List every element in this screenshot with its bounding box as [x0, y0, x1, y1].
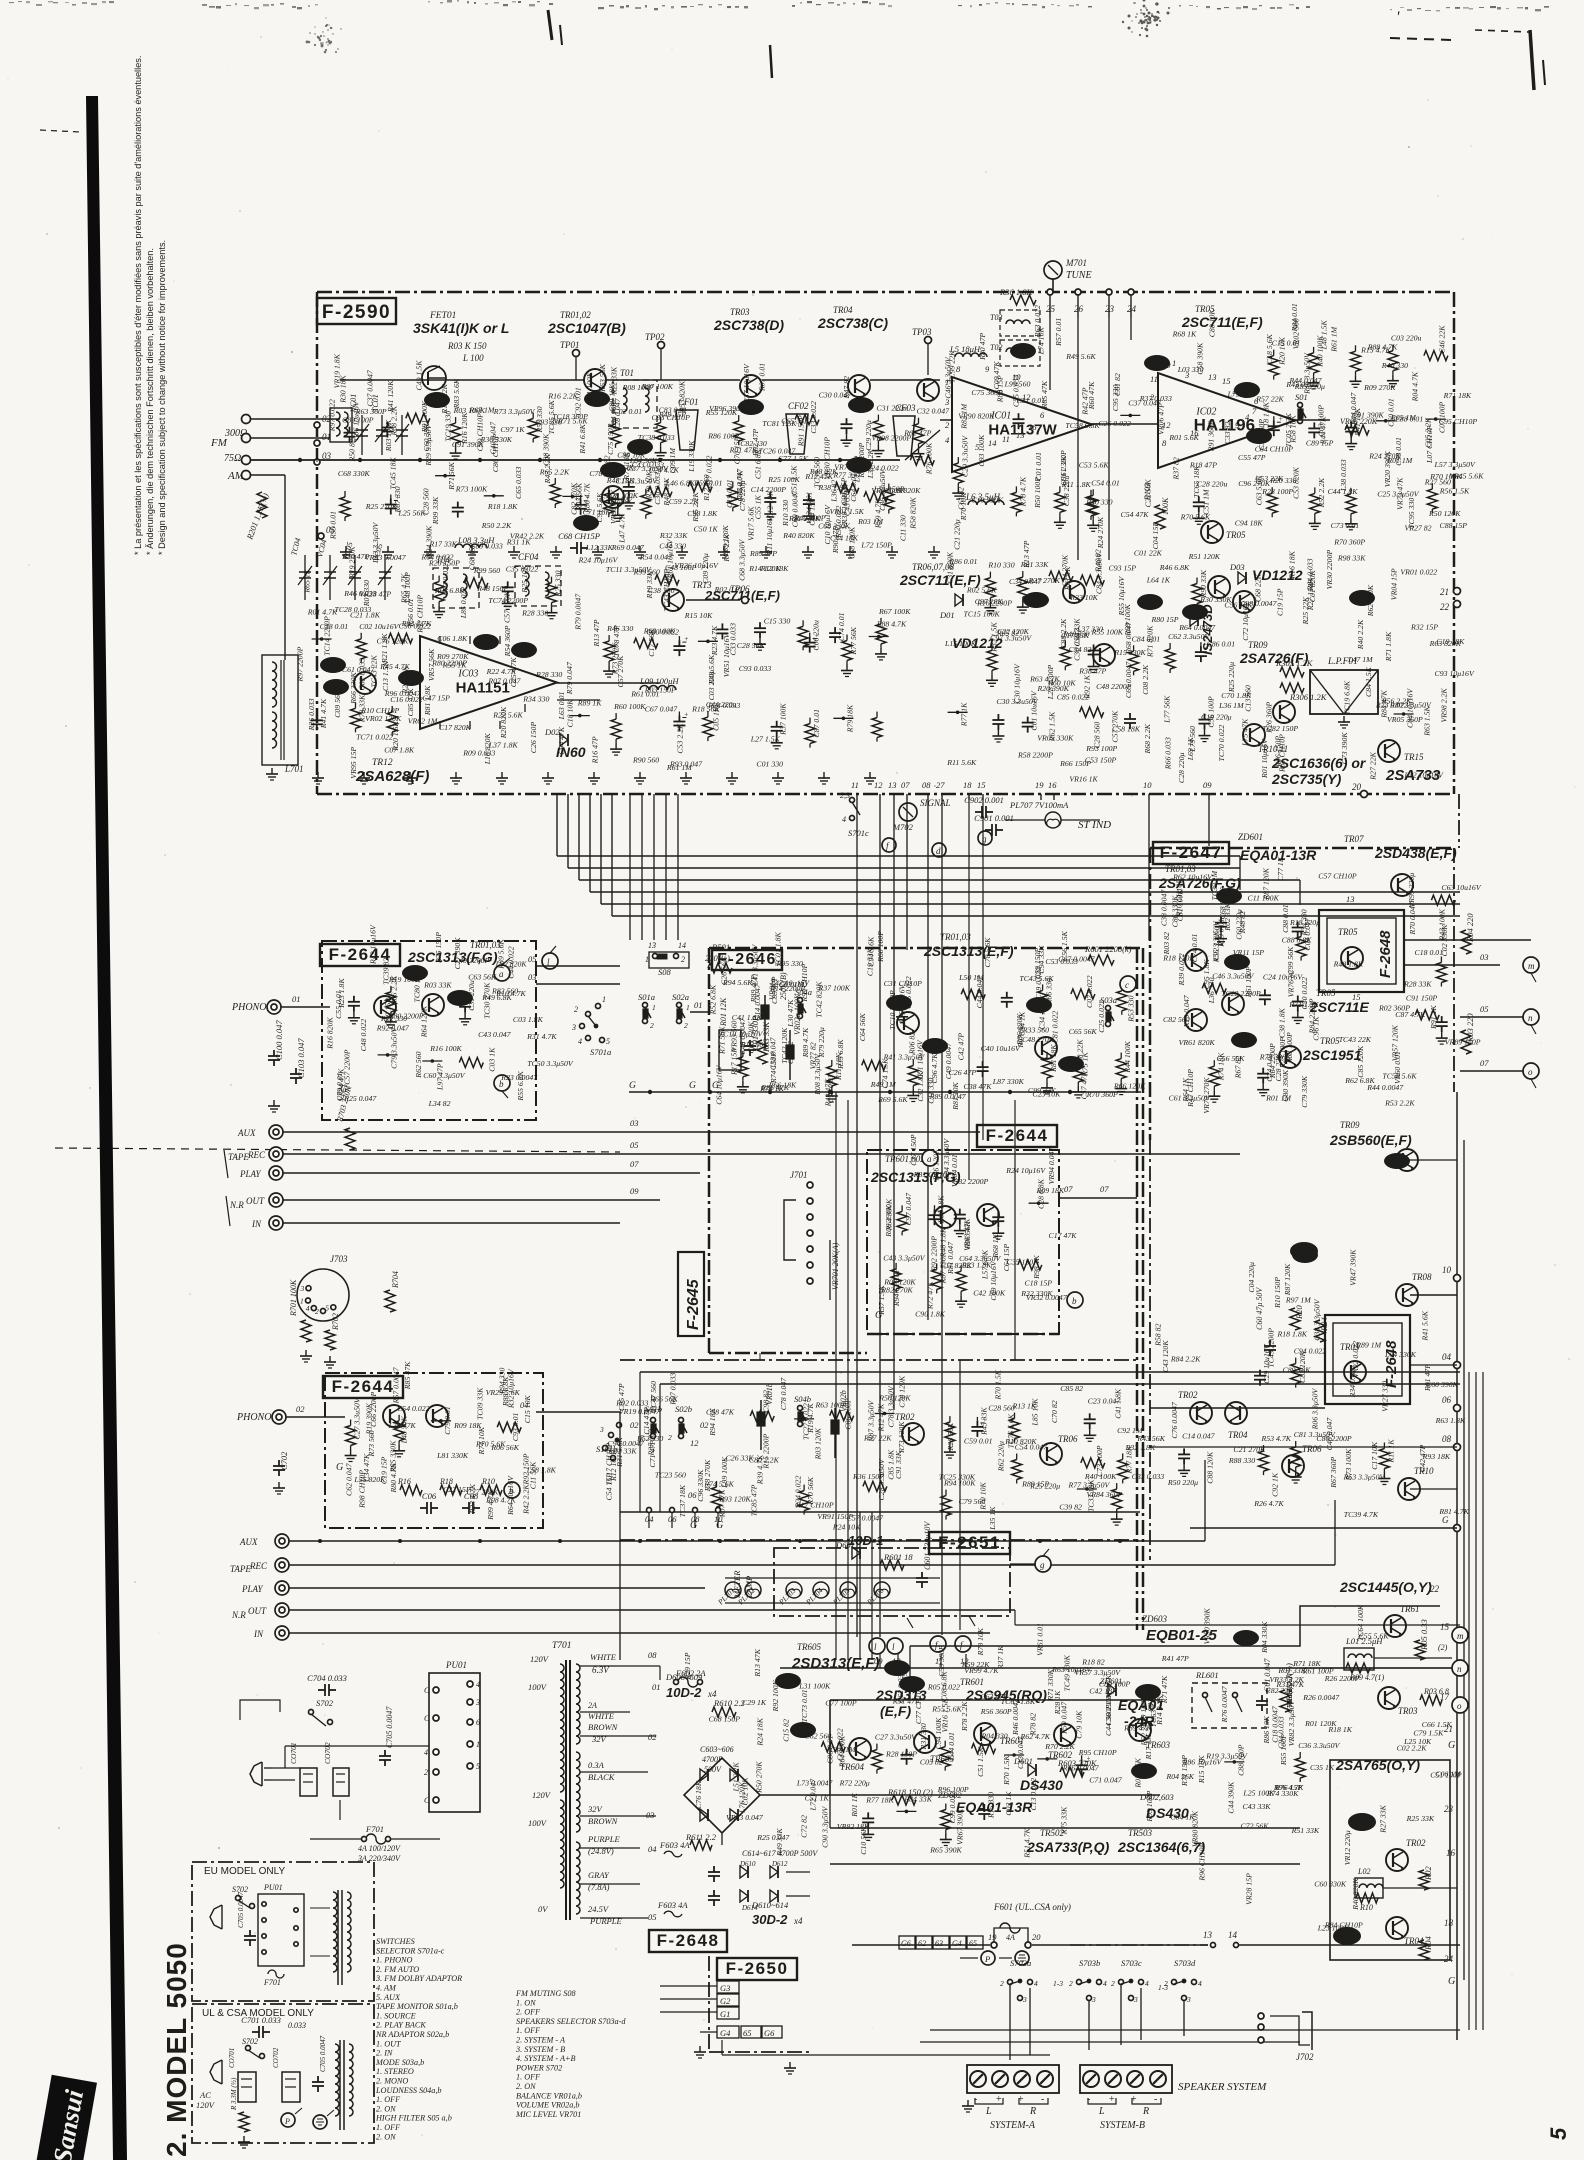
- svg-text:TC23 560: TC23 560: [655, 1471, 686, 1480]
- svg-text:R16: R16: [397, 1477, 411, 1486]
- svg-text:C22 56K: C22 56K: [1144, 479, 1153, 508]
- svg-text:C53 360P: C53 360P: [937, 1645, 946, 1677]
- main supply rails from bridge: [760, 1794, 830, 1796]
- svg-text:C79 3.3u50V: C79 3.3u50V: [390, 1027, 399, 1069]
- svg-text:R26 2200P: R26 2200P: [1324, 1674, 1360, 1683]
- coil L08 3.3uH: [455, 544, 487, 548]
- svg-text:C46 3.3μ50V: C46 3.3μ50V: [944, 356, 953, 398]
- svg-text:R20 150P: R20 150P: [428, 558, 460, 567]
- svg-text:C98 82: C98 82: [761, 1390, 770, 1413]
- R03 33K: [757, 1040, 767, 1064]
- svg-text:R15 10K: R15 10K: [684, 611, 713, 620]
- svg-text:SIGNAL: SIGNAL: [920, 798, 951, 808]
- svg-text:16: 16: [1048, 780, 1057, 790]
- transistor TR13 2SC711 mid: [662, 589, 684, 611]
- svg-text:06: 06: [1442, 1395, 1452, 1405]
- svg-text:TC27 0.022: TC27 0.022: [801, 1403, 810, 1440]
- svg-text:13: 13: [888, 780, 897, 790]
- svg-text:C91 150P: C91 150P: [1406, 993, 1438, 1002]
- svg-text:C49 1.5K: C49 1.5K: [414, 360, 423, 391]
- svg-text:C63 10u16V: C63 10u16V: [1441, 883, 1481, 892]
- svg-text:C27 3.3u50V: C27 3.3u50V: [875, 1733, 917, 1742]
- tuner row1 component cluster: [349, 427, 351, 433]
- svg-text:R60 100K: R60 100K: [613, 702, 646, 711]
- svg-text:TP03: TP03: [912, 327, 932, 337]
- svg-text:C44 1.8K: C44 1.8K: [1328, 487, 1359, 496]
- G bus under switches: [629, 1091, 1141, 1093]
- svg-text:R12 18K: R12 18K: [760, 564, 789, 573]
- svg-text:R59 0.047: R59 0.047: [1059, 1701, 1068, 1735]
- tuner box pins 25 26 23 24: [1047, 289, 1053, 295]
- svg-text:30D-2: 30D-2: [752, 1912, 788, 1927]
- VR02a 100K: [789, 1030, 791, 1080]
- svg-text:C29 3.3u50V: C29 3.3u50V: [960, 435, 969, 477]
- svg-text:R64 120K: R64 120K: [420, 1005, 429, 1038]
- svg-text:C92 1M: C92 1M: [1117, 1426, 1143, 1435]
- svg-text:TR09: TR09: [1340, 1120, 1360, 1130]
- svg-text:C13 560: C13 560: [1244, 685, 1253, 712]
- R601 18: [880, 1560, 904, 1570]
- svg-text:R85 47K: R85 47K: [403, 1361, 412, 1390]
- svg-text:4: 4: [306, 1304, 310, 1313]
- svg-text:R90 0.022: R90 0.022: [834, 506, 843, 539]
- svg-text:TAPE: TAPE: [228, 1152, 249, 1162]
- svg-text:+: +: [1109, 2094, 1115, 2105]
- svg-text:C28 56K: C28 56K: [737, 641, 766, 650]
- svg-text:R77 18K: R77 18K: [865, 1795, 894, 1804]
- ceramic filter CF02: [786, 414, 808, 454]
- svg-text:R28 330: R28 330: [521, 609, 548, 618]
- svg-text:TC95 330: TC95 330: [1407, 498, 1416, 529]
- svg-text:R20 10K: R20 10K: [1278, 336, 1287, 365]
- transistor TR11: [1273, 701, 1295, 723]
- svg-text:C97 1K: C97 1K: [500, 425, 525, 434]
- svg-text:VR12 220μ: VR12 220μ: [1343, 1830, 1352, 1865]
- svg-text:VR67 390K: VR67 390K: [955, 1808, 964, 1845]
- svg-text:3A 220/340V: 3A 220/340V: [357, 1854, 401, 1863]
- svg-text:R74 1K: R74 1K: [759, 1084, 784, 1093]
- svg-text:R90 560: R90 560: [632, 756, 659, 765]
- svg-text:R19 3.3μ50V: R19 3.3μ50V: [1205, 1752, 1248, 1761]
- svg-text:R78 4.7K: R78 4.7K: [1018, 476, 1027, 507]
- svg-text:M701: M701: [1065, 258, 1087, 268]
- svg-text:C94 47K: C94 47K: [557, 726, 566, 755]
- EU C705: [249, 1930, 251, 1936]
- svg-text:R26 360P: R26 360P: [1265, 701, 1274, 733]
- svg-text:C57 CH10P: C57 CH10P: [1318, 871, 1357, 880]
- Sansui logo block bottom left: [35, 2075, 97, 2160]
- svg-text:15: 15: [1222, 376, 1231, 386]
- svg-text:1: 1: [1172, 358, 1176, 368]
- svg-text:C01 22K: C01 22K: [1134, 549, 1163, 558]
- R603 220K: [1060, 1767, 1084, 1777]
- svg-text:C68 820K: C68 820K: [1218, 887, 1227, 920]
- fuse F602 2A: [678, 1677, 698, 1687]
- svg-text:L27 1.5K: L27 1.5K: [750, 735, 781, 744]
- svg-text:R73 120K: R73 120K: [897, 1421, 906, 1454]
- svg-text:R24 18K: R24 18K: [755, 1717, 764, 1746]
- svg-text:2SC1047(B): 2SC1047(B): [547, 320, 626, 336]
- svg-text:TAPE MONITOR S01a,b: TAPE MONITOR S01a,b: [376, 2002, 458, 2011]
- svg-text:R70 2.2K: R70 2.2K: [1044, 1742, 1075, 1751]
- svg-text:C17 33K: C17 33K: [1061, 631, 1090, 640]
- svg-text:R80 47P: R80 47P: [978, 333, 987, 361]
- svg-text:08: 08: [691, 1514, 700, 1524]
- svg-text:L50 1M: L50 1M: [958, 973, 984, 982]
- wires from F-2650 left: [660, 1985, 717, 1987]
- svg-text:R01 47P: R01 47P: [1423, 1364, 1432, 1392]
- svg-text:R92 2200P: R92 2200P: [929, 1236, 938, 1272]
- svg-text:VR63 0.0047: VR63 0.0047: [365, 553, 407, 562]
- output terminals right channel: [1454, 1275, 1461, 1282]
- svg-text:TC81 1.5K: TC81 1.5K: [762, 419, 797, 428]
- svg-text:C08 2.2K: C08 2.2K: [1141, 664, 1150, 695]
- svg-text:R86 0.01: R86 0.01: [948, 557, 977, 566]
- svg-text:R92 150P: R92 150P: [522, 1453, 531, 1485]
- svg-text:C44 0.01: C44 0.01: [947, 1732, 956, 1761]
- svg-text:L: L: [1098, 2106, 1105, 2117]
- svg-text:2,3: 2,3: [840, 791, 850, 800]
- svg-text:2SD438(E,F): 2SD438(E,F): [1374, 845, 1457, 861]
- svg-text:M702: M702: [892, 822, 914, 832]
- svg-text:TR06: TR06: [1302, 1444, 1322, 1454]
- svg-text:R56 360P: R56 360P: [980, 1707, 1012, 1716]
- svg-text:L12 18K: L12 18K: [766, 490, 775, 519]
- svg-text:R59 0.01: R59 0.01: [693, 478, 722, 487]
- svg-text:C79 0.01: C79 0.01: [443, 1406, 452, 1435]
- svg-text:TC65 18K: TC65 18K: [1192, 465, 1201, 498]
- ZD601 zener: [1108, 1684, 1116, 1696]
- G4 65 G6 boxes: [717, 2026, 739, 2038]
- svg-text:TC30 270K: TC30 270K: [483, 982, 492, 1019]
- svg-text:R70 5.6K: R70 5.6K: [1180, 513, 1211, 522]
- svg-text:14: 14: [988, 438, 997, 448]
- svg-text:R05 0.33: R05 0.33: [1419, 1619, 1429, 1651]
- svg-text:': ': [1396, 9, 1400, 26]
- svg-text:R26 4.7K: R26 4.7K: [1253, 1499, 1284, 1508]
- L09 100uH coil: [640, 686, 676, 691]
- svg-text:CO702: CO702: [272, 2047, 280, 2068]
- svg-text:VR61 820K: VR61 820K: [1179, 1038, 1216, 1047]
- R703 270K rotated: [345, 1128, 355, 1150]
- volume VR01a 250K: [764, 995, 766, 1050]
- svg-text:R95 0.01: R95 0.01: [328, 511, 337, 540]
- svg-text:S701a: S701a: [590, 1047, 611, 1057]
- blob mid right: [1292, 1247, 1318, 1263]
- svg-text:1: 1: [686, 1003, 690, 1012]
- svg-text:C701 0.033: C701 0.033: [241, 2015, 281, 2025]
- tuner row1 grounds: [345, 546, 347, 552]
- svg-text:TP01: TP01: [560, 340, 580, 350]
- svg-text:R63 56K: R63 56K: [598, 363, 607, 392]
- transistor TR08: [1208, 576, 1230, 598]
- svg-text:C09 1M: C09 1M: [668, 448, 677, 474]
- svg-text:3: 3: [1133, 1995, 1138, 2004]
- svg-text:R99 4.7K: R99 4.7K: [486, 1490, 495, 1521]
- cluster right power amp: [1183, 1448, 1185, 1454]
- svg-text:C705 0.0047: C705 0.0047: [385, 1706, 394, 1748]
- svg-text:C39 82: C39 82: [1059, 1502, 1082, 1511]
- black ink blobs tuner row1: [584, 391, 610, 407]
- svg-text:2: 2: [668, 1433, 672, 1442]
- svg-text:C89 18K: C89 18K: [1283, 1366, 1312, 1375]
- svg-text:C21 270K: C21 270K: [1233, 1445, 1266, 1454]
- svg-text:R12 47K: R12 47K: [876, 1403, 885, 1432]
- svg-text:L51 2.2K: L51 2.2K: [731, 1762, 740, 1793]
- svg-text:R91 360P: R91 360P: [1207, 420, 1216, 452]
- svg-text:L46 6.8K: L46 6.8K: [665, 479, 696, 488]
- wire 01 to F-2646: [690, 1011, 709, 1013]
- svg-text:C100 0.047: C100 0.047: [274, 1020, 284, 1060]
- svg-text:C68 100K: C68 100K: [847, 526, 856, 559]
- svg-text:R66 0.033: R66 0.033: [1163, 737, 1172, 770]
- svg-text:C79 560: C79 560: [959, 1497, 986, 1506]
- transistor TR05 below HA1196: [1201, 521, 1223, 543]
- svg-text:F-2644: F-2644: [332, 1377, 395, 1396]
- svg-text:R28 150P: R28 150P: [885, 1750, 917, 1759]
- svg-text:R306 1.2K: R306 1.2K: [1289, 692, 1328, 702]
- svg-text:R98 22K: R98 22K: [1076, 1039, 1085, 1068]
- small caps diodes D610-614 row: [713, 1866, 715, 1872]
- P earth terminals bottom: [981, 1951, 995, 1965]
- outputs to terminals m n o: [1404, 939, 1531, 941]
- rotated resistor R201 1.2K: [257, 492, 267, 518]
- svg-text:R05 4.7K: R05 4.7K: [736, 470, 745, 501]
- svg-text:R28 330: R28 330: [535, 670, 562, 679]
- R16 R18 R10 feedback resistors: [400, 1485, 422, 1495]
- svg-text:TC85 47P: TC85 47P: [750, 1484, 759, 1516]
- svg-text:L09 100μH: L09 100μH: [639, 676, 679, 686]
- svg-text:R25 33K: R25 33K: [1406, 1814, 1435, 1823]
- svg-text:R15 2200P: R15 2200P: [761, 1433, 770, 1469]
- cap C68 CH15P: [570, 547, 577, 549]
- svg-text:-: -: [1041, 2094, 1044, 2105]
- selector switch S701a: [586, 1012, 591, 1017]
- speaker relay RL601 dashed: [1192, 1683, 1267, 1728]
- svg-text:2SC738(C): 2SC738(C): [817, 315, 888, 331]
- svg-text:R97 0.033: R97 0.033: [669, 1373, 678, 1406]
- svg-text:PHONO: PHONO: [231, 1002, 266, 1013]
- svg-text:VR28 15P: VR28 15P: [1245, 1873, 1254, 1905]
- svg-text:F701: F701: [263, 1978, 281, 1987]
- svg-text:R07 0.01: R07 0.01: [758, 363, 767, 392]
- svg-text:19: 19: [988, 1932, 997, 1942]
- svg-text:C67 0.047: C67 0.047: [645, 705, 679, 714]
- svg-text:L36 330: L36 330: [1207, 977, 1216, 1004]
- svg-text:R41 6.8K: R41 6.8K: [578, 423, 587, 454]
- mic amp transistors: [934, 1206, 956, 1228]
- cluster F-2644 no1: [353, 996, 355, 1002]
- board edge pins 02 01 03 05: [314, 422, 320, 428]
- svg-text:R18 1K: R18 1K: [1327, 1725, 1352, 1734]
- svg-text:4: 4: [578, 1037, 582, 1046]
- svg-text:VR16 1.5K: VR16 1.5K: [941, 1697, 950, 1732]
- svg-text:07: 07: [630, 1159, 639, 1169]
- svg-text:R93 100P: R93 100P: [1085, 744, 1117, 753]
- svg-text:L12 33K: L12 33K: [585, 543, 614, 552]
- svg-text:VR80 820K: VR80 820K: [1191, 1810, 1200, 1847]
- svg-text:R41 3.3μ50V: R41 3.3μ50V: [883, 1052, 926, 1061]
- blobs near opamps: [1010, 343, 1036, 359]
- svg-text:TR05: TR05: [1226, 530, 1246, 540]
- svg-text:R50 120K: R50 120K: [1428, 509, 1461, 518]
- svg-text:D01: D01: [939, 610, 955, 620]
- C601 330u10V: [921, 1572, 923, 1578]
- svg-text:R71 820K: R71 820K: [1145, 625, 1154, 658]
- svg-text:C28 6.8K: C28 6.8K: [1037, 1178, 1046, 1209]
- svg-text:13: 13: [1203, 1930, 1213, 1940]
- svg-text:TR04: TR04: [833, 305, 853, 315]
- svg-text:R46 82: R46 82: [1094, 549, 1103, 572]
- R 220 resistors at outputs: [1461, 930, 1471, 954]
- svg-text:D610~614: D610~614: [751, 1900, 789, 1910]
- speaker terminal strip B: [1080, 2065, 1172, 2093]
- svg-text:R25 330: R25 330: [554, 570, 563, 597]
- svg-text:C60 3.3μ50V: C60 3.3μ50V: [423, 1071, 465, 1080]
- phono eq transistors TR01 TR03: [374, 996, 396, 1018]
- svg-text:5: 5: [476, 1762, 480, 1771]
- svg-text:R96 CH10P: R96 CH10P: [1198, 1842, 1207, 1881]
- D601 10D-1 diode: [852, 1547, 860, 1559]
- AC plug: [250, 1762, 262, 1786]
- svg-text:C38 47K: C38 47K: [964, 1082, 993, 1091]
- svg-text:L: L: [985, 2106, 992, 2117]
- svg-text:R74 150P: R74 150P: [769, 1052, 778, 1084]
- svg-text:13: 13: [1208, 372, 1217, 382]
- svg-text:R87 120K: R87 120K: [1262, 867, 1271, 900]
- svg-text:TC85 5.6K: TC85 5.6K: [547, 399, 556, 434]
- svg-text:R81 18K: R81 18K: [1049, 1044, 1058, 1073]
- svg-text:C82 560: C82 560: [1163, 1015, 1190, 1024]
- G6 62 63 G4 65 terminal boxes: [899, 1936, 915, 1949]
- speaker terminal strip A: [967, 2065, 1059, 2093]
- svg-text:L48 100P: L48 100P: [403, 572, 412, 604]
- driver row bottom bus: [620, 1511, 1140, 1513]
- svg-text:TC38 0.033: TC38 0.033: [638, 433, 675, 442]
- svg-text:C92 1K: C92 1K: [1271, 1472, 1280, 1497]
- svg-text:22: 22: [1430, 1584, 1440, 1594]
- svg-text:ST IND: ST IND: [1078, 819, 1111, 831]
- svg-text:R20: R20: [1294, 1305, 1304, 1320]
- svg-text:C04 220μ: C04 220μ: [1247, 1262, 1256, 1293]
- svg-text:VR94 0.047: VR94 0.047: [1047, 1146, 1056, 1184]
- svg-text:C51 1.5K: C51 1.5K: [789, 465, 798, 496]
- svg-text:C51 1M: C51 1M: [1202, 489, 1211, 515]
- driver transistor TR02: [902, 1423, 924, 1445]
- svg-text:R62 560: R62 560: [414, 1051, 423, 1078]
- svg-text:C14 47P: C14 47P: [642, 1407, 651, 1435]
- svg-text:R66 120K: R66 120K: [1113, 1081, 1146, 1090]
- svg-text:N.R: N.R: [229, 1200, 244, 1210]
- svg-text:16: 16: [1028, 422, 1037, 432]
- svg-text:C01 330: C01 330: [756, 759, 783, 768]
- PHONO input jack 1: [267, 1000, 281, 1014]
- mid tuner cluster: [948, 711, 968, 713]
- svg-text:120V: 120V: [532, 1790, 552, 1800]
- svg-text:C603~606: C603~606: [700, 1745, 734, 1754]
- svg-text:1. PHONO: 1. PHONO: [376, 1956, 412, 1965]
- svg-text:PLAY: PLAY: [239, 1169, 262, 1179]
- second conversion row coils T04 CF04: [433, 568, 479, 608]
- svg-text:R20 390K: R20 390K: [1037, 684, 1070, 693]
- svg-text:C93 10μ16V: C93 10μ16V: [1435, 669, 1475, 678]
- svg-text:R66 18K: R66 18K: [937, 1195, 946, 1224]
- svg-text:1: 1: [300, 1297, 304, 1306]
- svg-text:R55 10μ16V: R55 10μ16V: [1117, 575, 1126, 616]
- svg-text:C60 33K: C60 33K: [422, 423, 431, 452]
- svg-text:2: 2: [650, 1021, 654, 1030]
- svg-text:1. OFF: 1. OFF: [516, 2026, 541, 2035]
- svg-text:L15 100K: L15 100K: [944, 639, 977, 648]
- svg-text:C36 3.3u50V: C36 3.3u50V: [1298, 1741, 1340, 1750]
- svg-text:R61 0.01: R61 0.01: [630, 690, 659, 699]
- svg-text:SELECTOR S701a-c: SELECTOR S701a-c: [376, 1946, 445, 1955]
- UL plug symbol: [210, 2060, 222, 2084]
- svg-text:R71 56K: R71 56K: [447, 461, 456, 490]
- svg-text:R42 2.2K: R42 2.2K: [521, 1484, 530, 1515]
- power amp right transistors: [1190, 1402, 1212, 1424]
- svg-text:L36 1M: L36 1M: [1218, 701, 1244, 710]
- R618 150(2): [892, 1795, 916, 1805]
- svg-text:C34 100K: C34 100K: [1038, 997, 1047, 1030]
- svg-text:C47 15P: C47 15P: [422, 694, 450, 703]
- wires across power amp right: [1150, 1407, 1325, 1409]
- line filter caps CO701 CO702: [300, 1768, 317, 1796]
- svg-text:01: 01: [292, 994, 301, 1004]
- svg-text:R73 560: R73 560: [367, 1430, 376, 1457]
- svg-text:L39 47K: L39 47K: [388, 1421, 417, 1430]
- svg-text:C60 330K: C60 330K: [1314, 1879, 1347, 1888]
- svg-text:100K: 100K: [1161, 497, 1170, 515]
- terminal a2: [922, 1150, 938, 1166]
- svg-text:C901 0.001: C901 0.001: [974, 813, 1014, 823]
- power input wires: [272, 1767, 300, 1769]
- svg-text:R78 82: R78 82: [1029, 1713, 1038, 1736]
- svg-text:TR03: TR03: [730, 307, 750, 317]
- svg-text:R15 330: R15 330: [986, 1792, 995, 1819]
- svg-text:R89 0.0047: R89 0.0047: [929, 1092, 967, 1101]
- coil L6 3.5uH: [968, 501, 1004, 506]
- caps C902 C901 0.001: [975, 811, 982, 813]
- svg-text:R87 120K: R87 120K: [1283, 1263, 1292, 1296]
- svg-text:VR90 5.6K: VR90 5.6K: [609, 489, 618, 524]
- svg-text:C17 10K: C17 10K: [1370, 1441, 1379, 1470]
- svg-text:SPEAKER SYSTEM: SPEAKER SYSTEM: [1178, 2081, 1267, 2093]
- tone amp transistors: [897, 1012, 919, 1034]
- svg-text:14: 14: [678, 941, 686, 950]
- speaker bus horizontal: [852, 1944, 990, 1946]
- blob protection: [1233, 1630, 1259, 1646]
- svg-text:TC05 2.2K: TC05 2.2K: [1284, 412, 1293, 447]
- blob TR09: [1290, 1242, 1318, 1260]
- cluster right of HA1196: [1273, 350, 1275, 356]
- svg-text:F-2648: F-2648: [657, 1931, 720, 1950]
- svg-text:TC70 0.022: TC70 0.022: [1217, 725, 1226, 762]
- svg-text:4: 4: [1034, 1979, 1038, 1988]
- svg-text:R79 0.047: R79 0.047: [565, 661, 574, 695]
- svg-text:04: 04: [648, 1844, 657, 1854]
- svg-text:R70 360P: R70 360P: [1333, 538, 1365, 547]
- svg-text:20: 20: [1352, 782, 1362, 792]
- coil L5 18uH: [955, 353, 987, 357]
- svg-text:R36 150P: R36 150P: [852, 1472, 884, 1481]
- svg-text:VR64 0.01: VR64 0.01: [950, 1154, 959, 1187]
- svg-text:L63 0.01: L63 0.01: [557, 691, 566, 720]
- grounds row2: [317, 772, 319, 778]
- svg-text:C06 1M: C06 1M: [1435, 1770, 1461, 1779]
- svg-text:C69 120K: C69 120K: [721, 524, 730, 557]
- svg-text:C38 0.0047: C38 0.0047: [1160, 889, 1169, 926]
